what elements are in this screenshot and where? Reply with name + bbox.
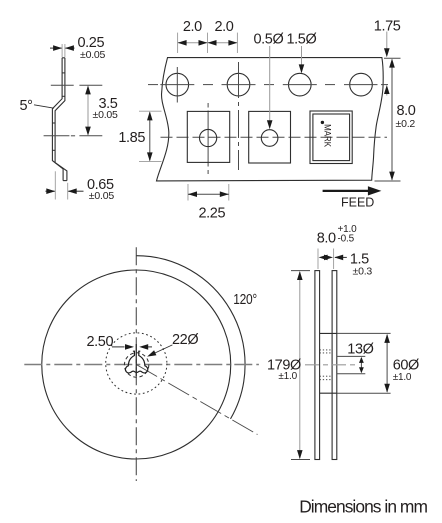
svg-text:Dimensions in mm: Dimensions in mm	[299, 497, 427, 517]
svg-text:±0.05: ±0.05	[89, 190, 115, 202]
svg-text:22Ø: 22Ø	[172, 332, 198, 348]
svg-text:2.25: 2.25	[199, 206, 226, 222]
svg-text:1.5Ø: 1.5Ø	[287, 32, 317, 48]
svg-text:5°: 5°	[20, 98, 33, 114]
svg-text:MARK: MARK	[321, 124, 332, 148]
svg-text:±0.3: ±0.3	[353, 266, 373, 278]
svg-text:13Ø: 13Ø	[347, 342, 373, 358]
svg-text:60Ø: 60Ø	[393, 357, 419, 373]
svg-text:±0.05: ±0.05	[80, 49, 106, 61]
svg-text:120°: 120°	[233, 292, 256, 308]
svg-text:FEED: FEED	[341, 196, 374, 210]
svg-text:±1.0: ±1.0	[278, 371, 297, 382]
svg-text:±1.0: ±1.0	[393, 372, 412, 383]
svg-text:-0.5: -0.5	[338, 233, 355, 244]
svg-text:2.0: 2.0	[183, 19, 202, 35]
svg-text:2.0: 2.0	[215, 19, 234, 35]
svg-text:1.85: 1.85	[118, 130, 145, 146]
svg-text:1.75: 1.75	[374, 18, 401, 34]
svg-text:0.5Ø: 0.5Ø	[254, 32, 284, 48]
svg-text:8.0: 8.0	[397, 103, 416, 119]
svg-text:8.0: 8.0	[317, 230, 336, 246]
svg-text:±0.05: ±0.05	[93, 109, 119, 121]
svg-text:±0.2: ±0.2	[396, 118, 416, 130]
svg-text:2.50: 2.50	[87, 334, 114, 350]
